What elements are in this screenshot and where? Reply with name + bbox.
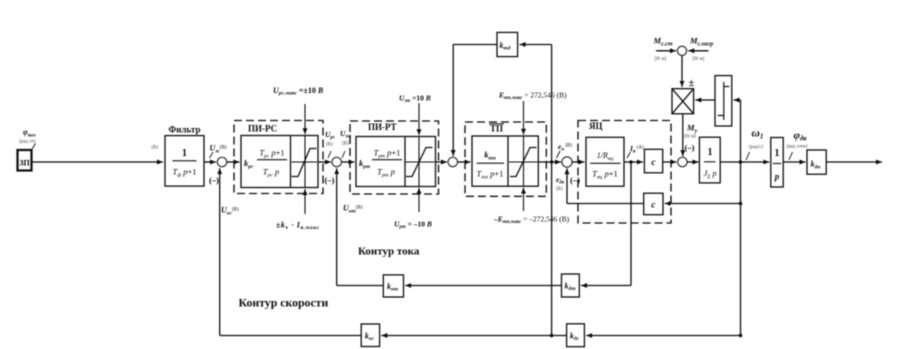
svg-text:Uзт =10 В: Uзт =10 В	[399, 94, 431, 105]
svg-text:(–): (–)	[685, 143, 695, 153]
svg-text:(В): (В)	[556, 187, 563, 192]
svg-text:(–): (–)	[209, 175, 219, 185]
svg-text:Tрс p: Tрс p	[263, 167, 279, 179]
svg-text:Tрс p+1: Tрс p+1	[259, 148, 284, 160]
svg-text:Uрс.макс =±10 В: Uрс.макс =±10 В	[273, 86, 324, 97]
svg-text:kтп: kтп	[484, 150, 496, 162]
svg-text:ПИ-РС: ПИ-РС	[248, 124, 277, 134]
svg-text:p: p	[774, 172, 780, 182]
svg-text:kос: kос	[365, 332, 375, 343]
svg-text:Tтп p+1: Tтп p+1	[477, 169, 504, 181]
svg-text:kдп: kдп	[811, 160, 821, 171]
svg-text:с: с	[651, 201, 656, 211]
svg-text:(рад элек): (рад элек)	[787, 145, 808, 150]
svg-text:(В): (В)	[342, 142, 349, 147]
svg-text:Tяц p+1: Tяц p+1	[592, 169, 617, 181]
svg-text:Uот(В): Uот(В)	[343, 204, 363, 215]
svg-text:1: 1	[775, 148, 780, 159]
svg-text:1: 1	[708, 147, 713, 158]
svg-text:φвых: φвых	[23, 128, 36, 139]
svg-text:Мс.нагр: Мс.нагр	[689, 36, 713, 48]
svg-text:[Н·м]: [Н·м]	[655, 57, 667, 62]
svg-text:kдт: kдт	[564, 282, 576, 293]
svg-text:Фильтр: Фильтр	[169, 125, 201, 135]
svg-text:Контур тока: Контур тока	[358, 246, 420, 258]
svg-text:ЯЦ: ЯЦ	[589, 121, 603, 131]
svg-text:едв: едв	[556, 175, 565, 186]
svg-text:(В): (В)	[152, 146, 159, 151]
svg-text:(–): (–)	[570, 175, 580, 185]
svg-text:ω1: ω1	[752, 128, 764, 141]
svg-text:±: ±	[689, 78, 695, 89]
svg-text:(рад/с): (рад/с)	[749, 145, 764, 150]
svg-text:kот: kот	[387, 282, 399, 293]
svg-text:φдв: φдв	[794, 130, 807, 143]
svg-text:Tрт p: Tрт p	[377, 167, 395, 179]
svg-text:Мс.ст: Мс.ст	[653, 36, 673, 48]
svg-text:Контур скорости: Контур скорости	[239, 296, 329, 310]
svg-text:kрс: kрс	[244, 158, 254, 170]
svg-text:–Eтп.макс = –272,546 (В): –Eтп.макс = –272,546 (В)	[493, 215, 570, 226]
svg-text:(–): (–)	[325, 175, 335, 185]
svg-text:1/Rяц: 1/Rяц	[597, 151, 614, 162]
svg-text:Uос(В): Uос(В)	[221, 206, 239, 217]
svg-text:JΣ p: JΣ p	[703, 168, 716, 180]
svg-text:±kт · Iя.макс: ±kт · Iя.макс	[276, 221, 320, 232]
svg-text:1: 1	[182, 148, 187, 159]
svg-text:(рад эл): (рад эл)	[19, 140, 36, 145]
svg-text:Tф p+1: Tф p+1	[172, 167, 196, 179]
svg-text:(В): (В)	[326, 143, 333, 148]
svg-text:Eтп.макс = 272,546 (В): Eтп.макс = 272,546 (В)	[498, 91, 567, 102]
svg-text:Tрт p+1: Tрт p+1	[374, 148, 401, 160]
svg-text:ЗП: ЗП	[19, 159, 30, 168]
svg-text:[Н·м]: [Н·м]	[693, 57, 705, 62]
svg-text:с: с	[651, 158, 656, 168]
svg-text:kдс: kдс	[570, 332, 580, 343]
svg-text:Му: Му	[686, 123, 698, 135]
svg-text:Uрт = –10 В: Uрт = –10 В	[394, 220, 432, 231]
svg-text:(Н·м): (Н·м)	[684, 135, 696, 140]
svg-text:еп (В): еп (В)	[558, 142, 572, 153]
svg-text:kтд: kтд	[500, 41, 511, 52]
svg-text:ПИ-РТ: ПИ-РТ	[368, 122, 397, 132]
svg-text:Iя (А): Iя (А)	[629, 144, 644, 155]
svg-text:kрт: kрт	[359, 158, 371, 170]
svg-text:ТП: ТП	[490, 124, 503, 134]
svg-text:Uрс: Uрс	[325, 130, 336, 141]
